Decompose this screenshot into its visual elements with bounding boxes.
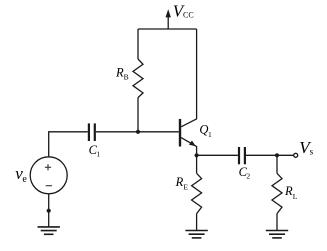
label Vs — [299, 138, 313, 157]
wire: C2 to output terminal — [246, 154, 294, 156]
svg-text:R: R — [175, 175, 184, 189]
svg-text:s: s — [310, 146, 314, 156]
ground (source) — [38, 227, 60, 234]
node: emitter junction dot — [195, 153, 199, 157]
label RB — [115, 66, 129, 82]
wire: RB bottom to base node — [137, 98, 139, 132]
resistor RB — [133, 59, 143, 98]
source plus sign — [45, 164, 51, 170]
ground (RL) — [266, 231, 288, 238]
wire: VCC rail to RB top — [137, 29, 139, 59]
svg-text:1: 1 — [96, 149, 100, 158]
capacitor C2 — [239, 147, 245, 164]
resistor RE — [192, 173, 202, 213]
node: dot below source — [47, 209, 51, 213]
svg-text:CC: CC — [183, 11, 194, 20]
wire: source bottom to ground — [48, 194, 50, 227]
power VCC arrow — [166, 9, 171, 29]
svg-text:e: e — [22, 174, 27, 185]
wire: RE to ground — [196, 214, 198, 231]
node: output junction dot — [275, 153, 279, 157]
label ve — [15, 164, 27, 185]
wire: output node to RL — [276, 155, 278, 173]
wire: RL to ground — [276, 214, 278, 231]
svg-text:L: L — [293, 192, 298, 201]
wire: emitter down to node — [196, 146, 198, 155]
wire: top supply rail — [138, 28, 197, 30]
svg-text:R: R — [284, 184, 293, 198]
resistor RL — [272, 173, 282, 213]
node: base junction dot — [136, 130, 140, 134]
label VCC — [173, 2, 194, 21]
wire: source top to C1 — [49, 132, 88, 157]
label Q1 — [199, 123, 212, 139]
capacitor C1 — [89, 123, 95, 141]
svg-text:E: E — [183, 182, 188, 191]
wire: collector to rail — [196, 29, 198, 119]
transistor Q1 — [180, 119, 197, 147]
wire: emitter node to RE — [196, 155, 198, 173]
label C2 — [239, 165, 251, 181]
label RE — [175, 175, 189, 192]
svg-text:1: 1 — [208, 130, 212, 139]
source minus sign — [46, 185, 52, 187]
terminal: output open circle — [294, 153, 298, 157]
svg-text:B: B — [124, 73, 129, 82]
svg-text:2: 2 — [246, 172, 250, 181]
wire: C1 to base — [96, 131, 179, 133]
wire: emitter node to C2 — [197, 154, 238, 156]
source ve circle — [30, 157, 67, 194]
label RL — [284, 184, 298, 201]
ground (RE) — [185, 231, 207, 238]
label C1 — [89, 143, 101, 159]
